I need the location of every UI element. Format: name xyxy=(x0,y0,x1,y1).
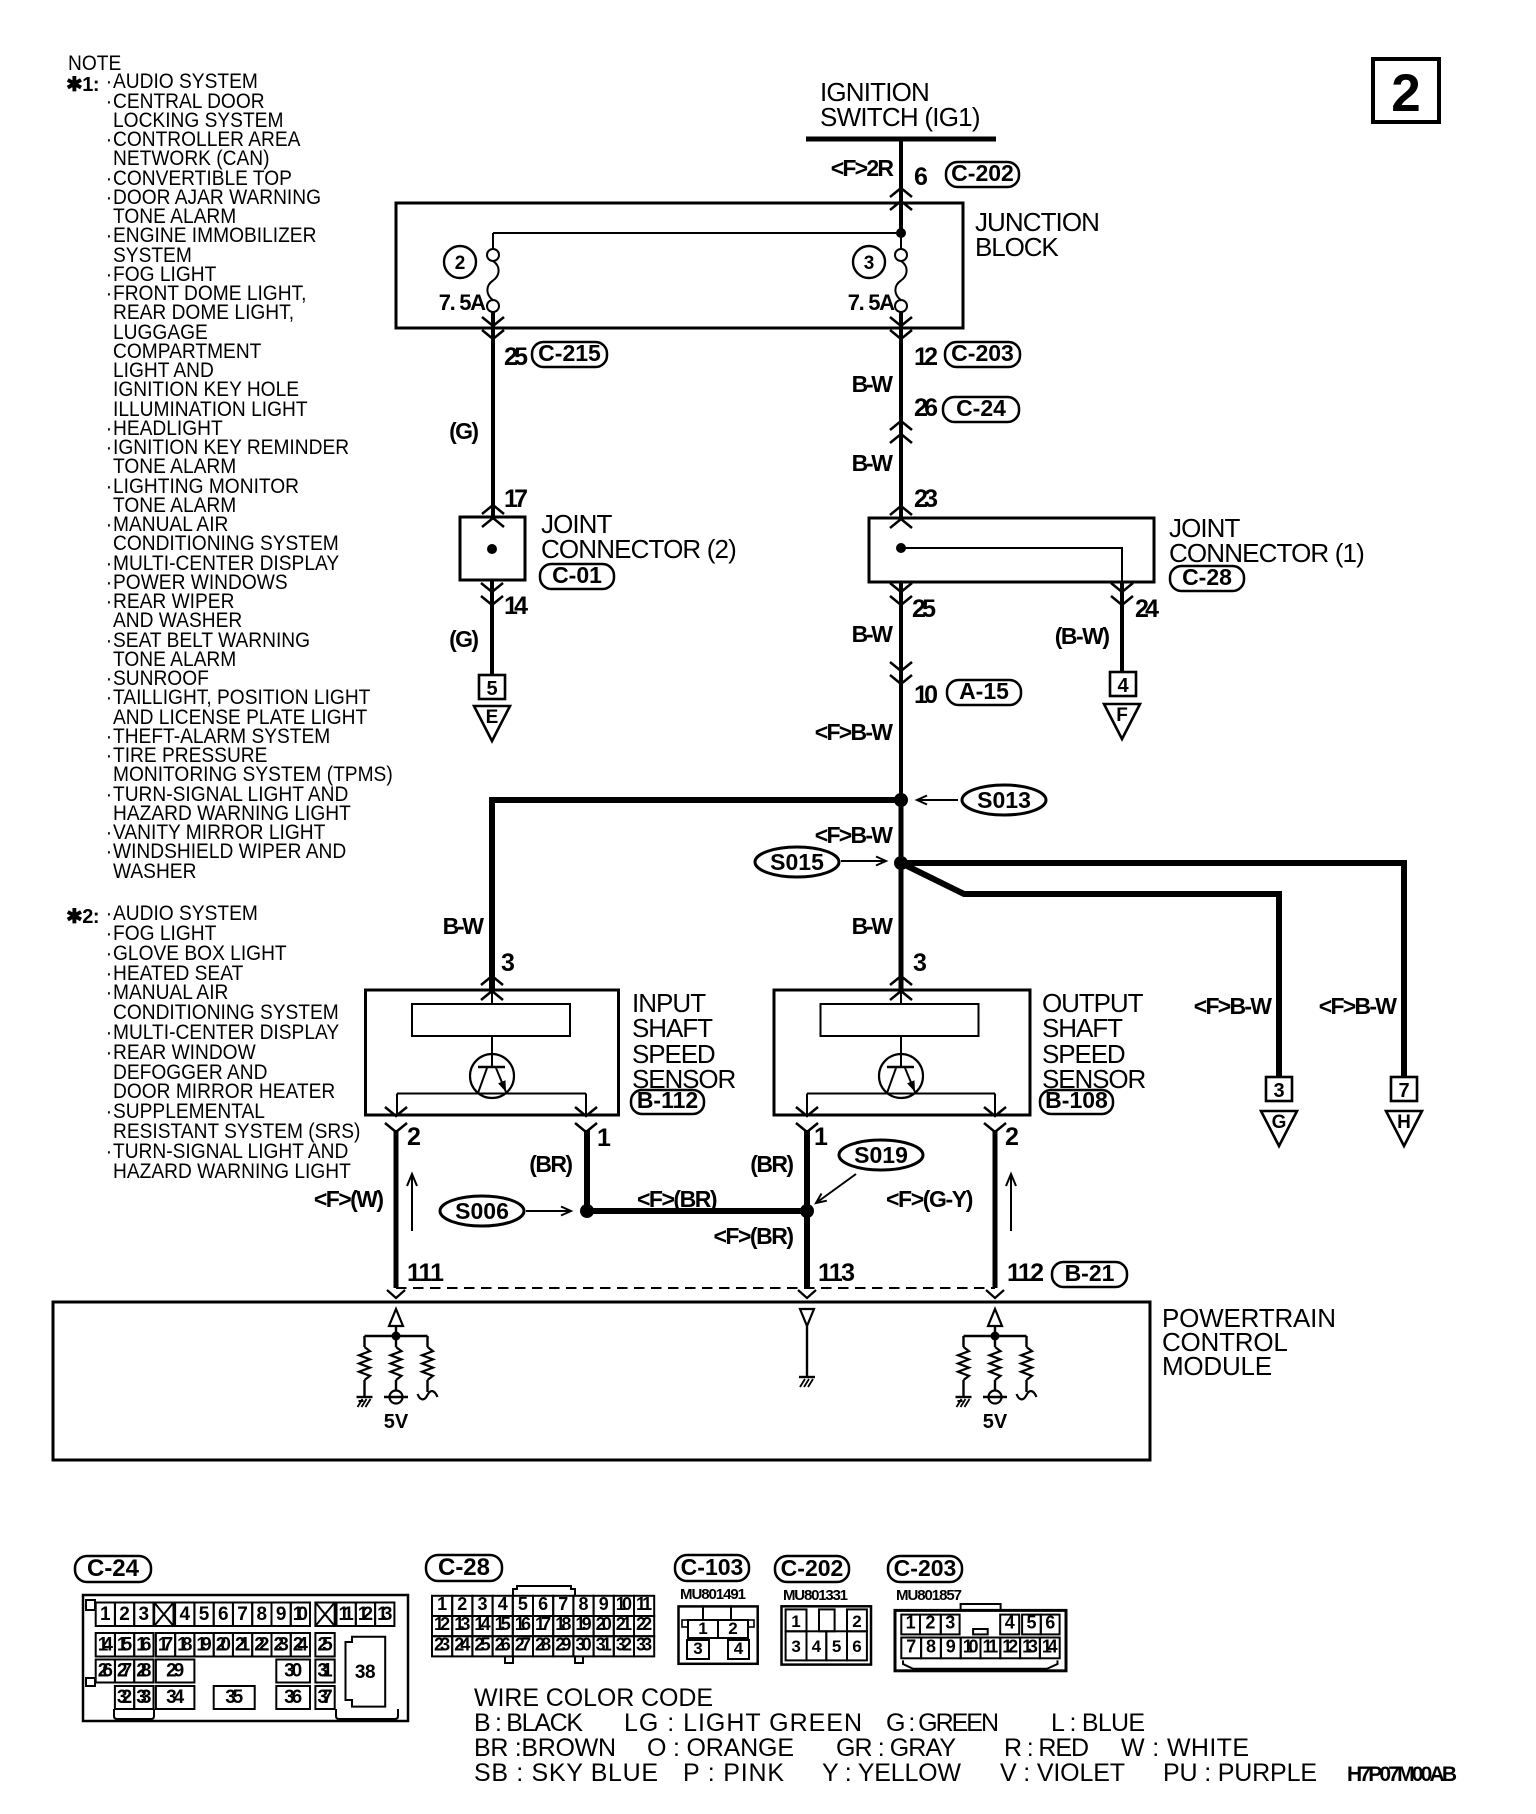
svg-text:<F>B-W: <F>B-W xyxy=(815,822,893,848)
svg-text:2: 2 xyxy=(119,1604,130,1625)
svg-text:(G): (G) xyxy=(449,418,479,444)
svg-text:B-W: B-W xyxy=(852,621,894,647)
svg-text:21: 21 xyxy=(616,1614,632,1634)
svg-text:3: 3 xyxy=(864,253,875,274)
connector C-24 label xyxy=(943,395,1019,422)
svg-text:7: 7 xyxy=(558,1594,568,1614)
svg-text:1: 1 xyxy=(906,1612,916,1632)
svg-text:1: 1 xyxy=(100,1604,111,1625)
svg-text:18: 18 xyxy=(177,1635,192,1656)
svg-text:6: 6 xyxy=(218,1604,229,1625)
svg-text:14: 14 xyxy=(474,1614,490,1634)
svg-text:2: 2 xyxy=(925,1612,935,1632)
svg-text:B-W: B-W xyxy=(852,450,894,476)
wire label <F>2R xyxy=(831,155,895,181)
wire ignition to junction block xyxy=(890,139,912,234)
svg-text:113: 113 xyxy=(818,1259,855,1287)
svg-text:SB : SKY BLUE: SB : SKY BLUE xyxy=(474,1759,658,1787)
svg-text:17: 17 xyxy=(504,485,528,513)
pin 6 label xyxy=(914,163,928,191)
svg-text:SWITCH (IG1): SWITCH (IG1) xyxy=(820,102,981,132)
svg-text:E: E xyxy=(486,707,499,728)
junction block internal wire xyxy=(493,233,901,249)
output sensor pin exit chevrons xyxy=(796,1107,1006,1132)
svg-text:C-202: C-202 xyxy=(951,160,1014,186)
connector C-202 title xyxy=(775,1555,849,1582)
PCM input circuit for pin 112 (5V pull-up) xyxy=(956,1309,1037,1433)
pin 1 output label xyxy=(814,1123,828,1151)
svg-text:2: 2 xyxy=(728,1619,737,1638)
svg-text:(BR): (BR) xyxy=(750,1151,794,1177)
PCM boundary dashed line xyxy=(396,1287,995,1289)
drawing number H7P07M00AB xyxy=(1347,1763,1457,1786)
svg-text:24: 24 xyxy=(454,1634,470,1654)
svg-text:111: 111 xyxy=(407,1259,444,1287)
signal direction arrow 112 xyxy=(1006,1174,1016,1231)
pin 2 input label xyxy=(407,1123,421,1151)
output sensor entry chevrons xyxy=(890,976,912,1000)
svg-text:13: 13 xyxy=(1022,1636,1038,1656)
svg-text:<F>B-W: <F>B-W xyxy=(1194,993,1272,1019)
PCM ground circuit for pin 113 xyxy=(799,1309,815,1387)
svg-text:25: 25 xyxy=(317,1635,333,1656)
connector B-112 label xyxy=(631,1087,704,1114)
svg-text:S015: S015 xyxy=(770,849,824,875)
svg-text:12: 12 xyxy=(358,1604,373,1625)
wire color code line 2 xyxy=(474,1734,1249,1762)
input shaft speed sensor B-112 xyxy=(366,990,619,1115)
connector C-28 title xyxy=(426,1554,502,1581)
svg-text:C-24: C-24 xyxy=(87,1555,140,1582)
svg-text:G: G xyxy=(1272,1112,1287,1133)
svg-text:C-203: C-203 xyxy=(951,340,1014,366)
svg-text:<F>(BR): <F>(BR) xyxy=(637,1186,718,1212)
svg-text:(B-W): (B-W) xyxy=(1055,623,1110,649)
svg-text:17: 17 xyxy=(158,1635,173,1656)
svg-text:B-108: B-108 xyxy=(1045,1087,1108,1113)
svg-text:2: 2 xyxy=(455,253,466,274)
svg-text:32: 32 xyxy=(616,1634,632,1654)
svg-text:B-21: B-21 xyxy=(1065,1260,1115,1286)
wire color B-W right drop xyxy=(852,913,894,939)
svg-text:22: 22 xyxy=(254,1635,269,1656)
svg-text:MU801331: MU801331 xyxy=(783,1587,848,1604)
svg-text:5V: 5V xyxy=(384,1411,409,1433)
connector B-108 label xyxy=(1040,1087,1113,1114)
svg-text:28: 28 xyxy=(535,1634,551,1654)
svg-text:8: 8 xyxy=(578,1594,588,1614)
signal direction arrow 111 xyxy=(407,1174,417,1231)
svg-text:14: 14 xyxy=(1042,1636,1058,1656)
svg-text:17: 17 xyxy=(535,1614,551,1634)
joint connector 1 box xyxy=(869,518,1154,582)
svg-text:PU : PURPLE: PU : PURPLE xyxy=(1163,1759,1317,1787)
svg-text:4: 4 xyxy=(498,1594,508,1614)
connector B-21 label xyxy=(1052,1260,1127,1287)
output shaft speed sensor B-108 xyxy=(774,990,1030,1115)
svg-text:16: 16 xyxy=(515,1614,531,1634)
wire S015 branch to ground H xyxy=(901,863,1404,1077)
wire color code line 3 xyxy=(474,1759,1317,1787)
svg-text:WIRE COLOR CODE: WIRE COLOR CODE xyxy=(474,1684,713,1712)
terminal box 4 xyxy=(1110,672,1136,697)
terminal box 5 xyxy=(479,675,505,700)
svg-text:19: 19 xyxy=(196,1635,211,1656)
wire input pin2 to PCM 111 xyxy=(387,1130,405,1298)
svg-text:R : RED: R : RED xyxy=(1004,1734,1089,1762)
svg-text:15: 15 xyxy=(117,1635,133,1656)
svg-text:3: 3 xyxy=(477,1594,487,1614)
S015 callout xyxy=(755,847,886,877)
svg-text:32: 32 xyxy=(117,1687,132,1708)
fuse 2 symbol xyxy=(487,249,499,312)
PCM input circuit for pin 111 (5V pull-up) xyxy=(357,1309,438,1433)
terminal box 7 xyxy=(1391,1077,1417,1102)
svg-text:A-15: A-15 xyxy=(959,678,1009,704)
svg-text:L : BLUE: L : BLUE xyxy=(1051,1709,1145,1737)
svg-text:6: 6 xyxy=(1045,1612,1055,1632)
svg-text:9: 9 xyxy=(946,1636,956,1656)
wire output pin2 to PCM 112 xyxy=(986,1130,1004,1298)
svg-text:S013: S013 xyxy=(977,787,1031,813)
svg-text:4: 4 xyxy=(1005,1612,1015,1632)
wire color (G) lower xyxy=(449,626,479,652)
svg-text:15: 15 xyxy=(495,1614,511,1634)
svg-text:5: 5 xyxy=(486,678,497,700)
wire input pin1 to node S006 xyxy=(584,1130,590,1211)
terminal box 3 xyxy=(1266,1077,1292,1102)
svg-text:10: 10 xyxy=(914,681,938,709)
page number box 2 xyxy=(1373,59,1439,123)
fuse 3 symbol xyxy=(895,233,907,312)
pin 25 label xyxy=(504,343,528,371)
svg-text:<F>B-W: <F>B-W xyxy=(815,719,893,745)
input sensor entry chevrons xyxy=(481,976,503,1000)
connector C-24 pin view xyxy=(83,1595,408,1721)
wire S013 to S015 to output sensor xyxy=(899,800,904,990)
svg-text:24: 24 xyxy=(1135,595,1159,623)
svg-text:B-W: B-W xyxy=(852,913,894,939)
svg-text:14: 14 xyxy=(504,592,528,620)
note *1 marker xyxy=(66,72,99,97)
svg-text:25: 25 xyxy=(504,343,528,371)
svg-text:P : PINK: P : PINK xyxy=(683,1759,784,1787)
pin 17 label xyxy=(504,485,528,513)
svg-text:30: 30 xyxy=(284,1661,302,1682)
wire label <F>(G-Y) xyxy=(886,1186,973,1212)
connector C-103 part number MU801491 xyxy=(680,1586,746,1603)
wire JC1 to node S013 xyxy=(890,582,912,800)
junction block box xyxy=(396,203,963,328)
svg-text:Y : YELLOW: Y : YELLOW xyxy=(822,1759,961,1787)
svg-text:BR :BROWN: BR :BROWN xyxy=(474,1734,616,1762)
wire joint connector 2 to ground terminal 5 xyxy=(481,580,503,675)
joint connector 2 box xyxy=(460,517,525,580)
connector C-203 pin view xyxy=(895,1604,1066,1671)
wire color B-W left drop xyxy=(443,913,485,939)
ground F xyxy=(1104,704,1140,739)
svg-text:5: 5 xyxy=(1026,1612,1036,1632)
wire color code line 1 xyxy=(474,1709,1145,1737)
svg-text:23: 23 xyxy=(914,485,938,513)
svg-text:7: 7 xyxy=(906,1636,916,1656)
svg-text:7. 5A: 7. 5A xyxy=(439,290,486,315)
wire label <F>B-W middle xyxy=(815,822,893,848)
svg-text:<F>B-W: <F>B-W xyxy=(1319,993,1397,1019)
svg-text:10: 10 xyxy=(963,1636,979,1656)
joint connector 1 label xyxy=(1169,513,1365,568)
svg-text:O : ORANGE: O : ORANGE xyxy=(647,1734,794,1762)
svg-text:24: 24 xyxy=(293,1635,309,1656)
wire color B-W 3 xyxy=(852,621,894,647)
node S019 xyxy=(800,1204,814,1218)
connector C-24 title xyxy=(75,1555,151,1582)
wire JC1 pin24 to ground terminal 4 xyxy=(1111,582,1133,672)
svg-text:S006: S006 xyxy=(455,1198,509,1224)
svg-text:4: 4 xyxy=(734,1639,744,1658)
svg-text:30: 30 xyxy=(575,1634,591,1654)
input sensor label xyxy=(632,988,736,1094)
pin 1 input label xyxy=(597,1124,611,1152)
svg-text:B : BLACK: B : BLACK xyxy=(474,1709,583,1737)
svg-text:2: 2 xyxy=(852,1612,861,1631)
connector C-01 label xyxy=(540,562,614,589)
svg-text:38: 38 xyxy=(355,1662,375,1683)
wire label <F>B-W upper xyxy=(815,719,893,745)
svg-text:MU801857: MU801857 xyxy=(896,1587,962,1604)
wire color (G) xyxy=(449,418,479,444)
svg-text:13: 13 xyxy=(377,1604,392,1625)
svg-text:6: 6 xyxy=(538,1594,548,1614)
svg-text:20: 20 xyxy=(216,1635,231,1656)
svg-text:10: 10 xyxy=(616,1594,632,1614)
svg-text:F: F xyxy=(1116,705,1128,726)
svg-text:C-28: C-28 xyxy=(1182,564,1232,590)
pin 111 label xyxy=(407,1259,444,1287)
ignition switch (IG1) label xyxy=(820,77,981,132)
node junction block top xyxy=(896,228,906,238)
pin 26 label xyxy=(914,394,938,422)
connector C-103 pin view xyxy=(679,1606,758,1663)
svg-text:34: 34 xyxy=(166,1687,184,1708)
svg-text:C-215: C-215 xyxy=(538,340,601,366)
wire S006 to S019 xyxy=(587,1208,808,1214)
node S013 xyxy=(894,793,908,807)
wire color (BR) output xyxy=(750,1151,794,1177)
svg-text:1: 1 xyxy=(814,1123,828,1151)
svg-text:29: 29 xyxy=(555,1634,571,1654)
svg-text:C-01: C-01 xyxy=(552,562,602,588)
svg-text:16: 16 xyxy=(136,1635,151,1656)
svg-text:5: 5 xyxy=(832,1637,841,1656)
svg-text:S019: S019 xyxy=(854,1142,908,1168)
pin 12 label xyxy=(914,343,938,371)
svg-text:1: 1 xyxy=(698,1619,707,1638)
wire output pin1 to PCM 113 xyxy=(798,1130,816,1298)
output sensor label xyxy=(1042,988,1146,1094)
svg-text:LG : LIGHT GREEN: LG : LIGHT GREEN xyxy=(624,1709,862,1737)
svg-text:18: 18 xyxy=(555,1614,571,1634)
svg-text:6: 6 xyxy=(914,163,928,191)
svg-text:2: 2 xyxy=(1005,1123,1019,1151)
svg-text:5V: 5V xyxy=(983,1411,1008,1433)
svg-text:12: 12 xyxy=(914,343,938,371)
svg-text:4: 4 xyxy=(1117,675,1129,697)
svg-text:4: 4 xyxy=(179,1604,190,1625)
fuse 3 rating 7.5A xyxy=(848,290,895,315)
wire color B-W 1 xyxy=(852,371,894,397)
svg-text:19: 19 xyxy=(575,1614,591,1634)
svg-text:C-24: C-24 xyxy=(956,395,1006,421)
pin 25 below JC1 xyxy=(912,595,936,623)
svg-text:MU801491: MU801491 xyxy=(680,1586,746,1603)
wire label <F>B-W branch G xyxy=(1194,993,1272,1019)
pin 23 label xyxy=(914,485,938,513)
connector C-28 label xyxy=(1170,564,1244,591)
svg-text:31: 31 xyxy=(317,1661,333,1682)
svg-text:GR : GRAY: GR : GRAY xyxy=(836,1734,956,1762)
powertrain control module box xyxy=(53,1302,1150,1460)
wire color B-W 2 xyxy=(852,450,894,476)
connector A-15 label xyxy=(947,678,1021,705)
svg-text:37: 37 xyxy=(317,1687,332,1708)
svg-text:26: 26 xyxy=(914,394,938,422)
svg-text:5: 5 xyxy=(199,1604,210,1625)
ground G xyxy=(1261,1111,1297,1146)
ground H xyxy=(1386,1111,1422,1146)
pin 24 label xyxy=(1135,595,1159,623)
svg-text:31: 31 xyxy=(596,1634,612,1654)
svg-text:3: 3 xyxy=(1273,1080,1284,1102)
S019 callout xyxy=(816,1140,923,1203)
svg-text:25: 25 xyxy=(474,1634,490,1654)
svg-text:8: 8 xyxy=(926,1636,936,1656)
svg-text:V : VIOLET: V : VIOLET xyxy=(1000,1759,1125,1787)
svg-text:29: 29 xyxy=(166,1661,184,1682)
svg-text:H: H xyxy=(1397,1112,1411,1133)
svg-text:25: 25 xyxy=(912,595,936,623)
svg-text:2: 2 xyxy=(457,1594,467,1614)
junction block label xyxy=(975,207,1100,262)
node S015 xyxy=(894,856,908,870)
svg-text:B-112: B-112 xyxy=(637,1087,698,1113)
svg-text:9: 9 xyxy=(599,1594,609,1614)
note *2 marker xyxy=(66,904,99,929)
connector C-103 title xyxy=(675,1554,749,1581)
svg-text:26: 26 xyxy=(495,1634,511,1654)
pin 2 output label xyxy=(1005,1123,1019,1151)
wire S015 branch to ground G xyxy=(901,863,1279,1077)
svg-text:<F>(BR): <F>(BR) xyxy=(714,1223,795,1249)
svg-text:C-28: C-28 xyxy=(438,1554,490,1581)
svg-text:<F>(G-Y): <F>(G-Y) xyxy=(886,1186,973,1212)
svg-text:23: 23 xyxy=(274,1635,289,1656)
svg-text:2: 2 xyxy=(407,1123,421,1151)
connector C-202 label xyxy=(946,160,1019,187)
svg-text:CONNECTOR (2): CONNECTOR (2) xyxy=(541,534,737,564)
note list *1 xyxy=(113,72,393,881)
svg-text:C-103: C-103 xyxy=(681,1554,744,1580)
fuse 3 designator circle xyxy=(853,246,885,278)
wire S013 branch to input sensor xyxy=(492,800,901,990)
note list *2 xyxy=(113,904,360,1181)
connector C-203 part number MU801857 xyxy=(896,1587,962,1604)
pin 10 label xyxy=(914,681,938,709)
svg-text:27: 27 xyxy=(117,1661,132,1682)
svg-text:112: 112 xyxy=(1007,1259,1044,1287)
wire fuse 2 to joint connector 2 xyxy=(482,312,504,527)
fuse 2 rating 7.5A xyxy=(439,290,486,315)
svg-text:13: 13 xyxy=(454,1614,470,1634)
svg-text:MODULE: MODULE xyxy=(1162,1351,1272,1381)
note heading xyxy=(68,54,121,73)
svg-text:11: 11 xyxy=(339,1604,355,1625)
svg-text:9: 9 xyxy=(276,1604,287,1625)
node S006 xyxy=(580,1204,594,1218)
ignition switch bar xyxy=(806,137,996,142)
pin 14 label xyxy=(504,592,528,620)
svg-text:23: 23 xyxy=(434,1634,450,1654)
svg-text:10: 10 xyxy=(293,1604,308,1625)
svg-text:7: 7 xyxy=(237,1604,248,1625)
svg-text:3: 3 xyxy=(791,1637,800,1656)
svg-text:22: 22 xyxy=(636,1614,652,1634)
input sensor pin exit chevrons xyxy=(385,1107,597,1132)
connector C-203 title xyxy=(888,1555,962,1582)
svg-text:6: 6 xyxy=(852,1637,861,1656)
svg-text:2: 2 xyxy=(1391,64,1420,123)
svg-text:21: 21 xyxy=(235,1635,251,1656)
svg-text:3: 3 xyxy=(501,949,515,977)
svg-text:20: 20 xyxy=(596,1614,612,1634)
wire color (BR) input xyxy=(529,1151,573,1177)
svg-text:C-203: C-203 xyxy=(894,1555,957,1581)
svg-text:33: 33 xyxy=(136,1687,151,1708)
svg-text:11: 11 xyxy=(983,1636,999,1656)
svg-text:7: 7 xyxy=(1398,1080,1409,1102)
svg-text:H7P07M00AB: H7P07M00AB xyxy=(1347,1763,1457,1786)
svg-text:1: 1 xyxy=(791,1612,800,1631)
svg-text:3: 3 xyxy=(139,1604,150,1625)
svg-text:12: 12 xyxy=(1002,1636,1018,1656)
svg-text:8: 8 xyxy=(257,1604,268,1625)
svg-text:3: 3 xyxy=(693,1639,702,1658)
svg-text:B-W: B-W xyxy=(443,913,485,939)
connector C-28 pin view xyxy=(432,1586,654,1663)
svg-text:3: 3 xyxy=(945,1612,955,1632)
svg-text:BLOCK: BLOCK xyxy=(975,232,1059,262)
S006 callout xyxy=(440,1196,571,1226)
svg-text:36: 36 xyxy=(284,1687,302,1708)
wire color code heading xyxy=(474,1684,713,1712)
PCM label xyxy=(1162,1303,1336,1381)
svg-text:35: 35 xyxy=(225,1687,243,1708)
svg-text:1: 1 xyxy=(437,1594,447,1614)
wire junction block to joint connector 1 xyxy=(890,312,912,528)
joint connector 2 label xyxy=(541,509,737,564)
svg-text:11: 11 xyxy=(636,1594,652,1614)
svg-text:14: 14 xyxy=(98,1635,114,1656)
svg-text:33: 33 xyxy=(636,1634,652,1654)
svg-text:(G): (G) xyxy=(449,626,479,652)
svg-text:3: 3 xyxy=(913,949,927,977)
svg-text:27: 27 xyxy=(515,1634,531,1654)
pin 113 label xyxy=(818,1259,855,1287)
pin 3 output label xyxy=(913,949,927,977)
svg-text:C-202: C-202 xyxy=(781,1555,844,1581)
wire label <F>B-W branch H xyxy=(1319,993,1397,1019)
fuse 2 designator circle xyxy=(444,246,476,278)
